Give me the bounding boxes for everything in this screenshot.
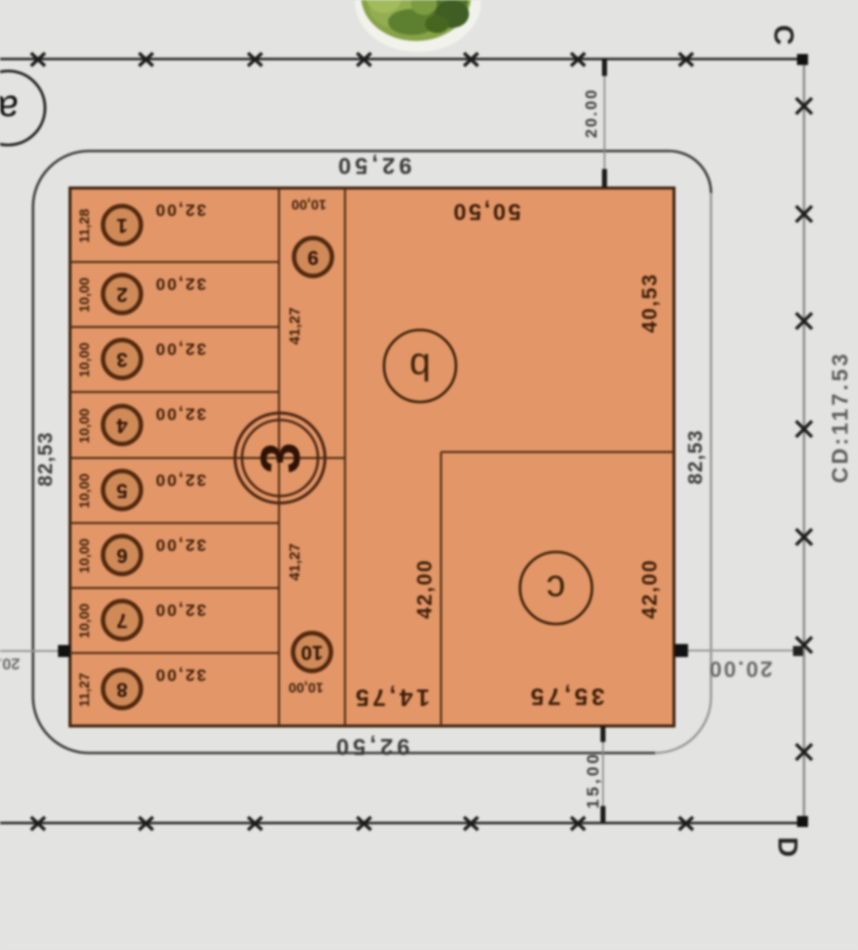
svg-text:14,75: 14,75 [352,684,430,711]
svg-text:11,27: 11,27 [76,673,92,707]
middle lot bottom number circle [293,633,331,671]
svg-text:50,50: 50,50 [451,199,521,225]
strip lot 1 [76,201,206,245]
svg-text:35,75: 35,75 [527,683,605,710]
strip lot 6 [76,536,206,575]
corner circle a [0,71,45,145]
svg-text:a: a [0,87,19,129]
strip lot 8 [76,666,206,709]
wire strip line 6 [70,587,279,589]
wire strip line 5 [70,522,279,524]
svg-text:9: 9 [307,246,318,268]
wire strip line 1 [70,261,279,263]
dimension 20.00 right [675,644,803,682]
top road [0,58,801,61]
svg-text:10,00: 10,00 [76,473,92,508]
svg-text:92,50: 92,50 [332,734,410,760]
svg-text:41,27: 41,27 [287,543,304,581]
road corner monument C [797,54,808,65]
svg-text:3: 3 [116,348,127,370]
wire b/c vertical divider [440,452,442,726]
road corner monument D [797,816,808,827]
block number 3 (double circle) [235,413,325,503]
wire b/c horizontal divider [441,451,674,453]
fence marks bottom road [31,817,693,830]
strip lot 4 [76,405,206,445]
svg-text:2: 2 [116,283,127,305]
svg-text:CD:117.53: CD:117.53 [828,351,853,483]
wire vertical strips/middle divider [278,188,280,726]
svg-text:C: C [769,25,800,45]
svg-text:32,00: 32,00 [154,666,207,685]
fence marks right road [796,98,812,760]
orange block [70,188,674,726]
svg-text:10,00: 10,00 [76,538,92,573]
block boundary dark part: left, top, top-right corner, bottom [33,151,711,753]
svg-text:20.00: 20.00 [0,655,20,672]
svg-text:1: 1 [116,214,127,236]
svg-text:10,00: 10,00 [76,277,92,312]
block boundary gray part: right side and bottom-right corner [655,193,711,753]
lot lines [70,188,674,726]
svg-text:10,00: 10,00 [76,408,92,443]
svg-text:32,00: 32,00 [154,201,207,220]
svg-text:32,00: 32,00 [154,601,207,620]
svg-text:82,53: 82,53 [685,429,707,484]
strip lot 2 [76,275,206,314]
svg-text:10: 10 [301,641,323,663]
svg-text:c: c [547,567,566,609]
svg-text:32,00: 32,00 [154,471,207,490]
wire strip line 2 [70,326,279,328]
svg-text:5: 5 [116,479,127,501]
svg-text:4: 4 [116,414,128,436]
dimension 20.0 left (clipped) [0,645,70,672]
svg-text:32,00: 32,00 [154,536,207,555]
tree [361,0,471,41]
svg-text:32,00: 32,00 [154,275,207,294]
svg-text:41,27: 41,27 [287,307,304,345]
fence marks top road [31,53,693,66]
svg-text:42,00: 42,00 [639,559,662,619]
svg-text:6: 6 [116,544,127,566]
lot b [384,330,456,402]
svg-text:15,00: 15,00 [584,751,603,809]
svg-text:10,00: 10,00 [291,197,326,213]
svg-text:10,00: 10,00 [76,342,92,377]
svg-text:40,53: 40,53 [639,273,662,333]
svg-text:42,00: 42,00 [414,559,437,619]
svg-text:92,50: 92,50 [334,153,412,179]
wire strip line 7 [70,652,279,654]
svg-text:20.00: 20.00 [584,88,601,138]
svg-text:3: 3 [249,442,312,473]
svg-text:7: 7 [116,609,127,631]
svg-text:10,00: 10,00 [288,680,323,696]
strip lot 7 [76,601,206,640]
svg-text:b: b [409,345,430,387]
bottom road [0,822,801,825]
svg-text:8: 8 [116,678,127,700]
lot c [520,552,592,624]
tree halo [355,0,481,52]
wire middle/b divider [344,188,346,726]
svg-text:32,00: 32,00 [154,340,207,359]
svg-text:11,28: 11,28 [76,209,92,243]
svg-text:82,53: 82,53 [35,431,57,486]
svg-text:D: D [773,837,804,857]
right road CD [803,59,805,823]
middle lot top number circle [294,238,332,276]
dimension 15.00 bottom [584,726,604,822]
svg-text:10,00: 10,00 [76,603,92,638]
wire strip line 3 [70,391,279,393]
svg-text:32,00: 32,00 [154,405,207,424]
strip lot 3 [76,340,206,379]
strip lot 5 [76,471,206,510]
dimension 20.00 top right [584,58,605,187]
svg-text:20.00: 20.00 [707,657,772,682]
wire strip line 4 + middle lot divider [70,457,345,459]
